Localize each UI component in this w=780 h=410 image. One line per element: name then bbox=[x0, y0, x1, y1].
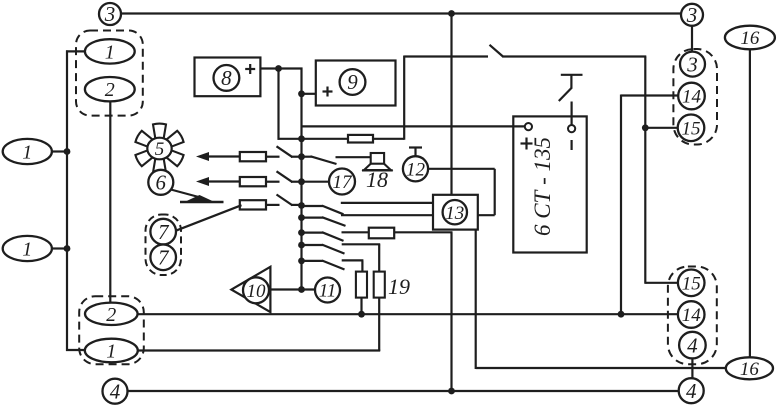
ground wedge bbox=[186, 195, 214, 202]
svg-text:10: 10 bbox=[247, 281, 267, 302]
junction bus row5 bbox=[298, 229, 305, 236]
junction terminal 14 riser bottom bbox=[618, 311, 625, 318]
terminal 3 (top left) bbox=[99, 2, 121, 26]
junction bus row2 bbox=[298, 178, 305, 185]
terminal 14 (right block) bbox=[678, 83, 705, 110]
fuse F1 bbox=[348, 135, 373, 143]
connector block (top left, dashed) bbox=[76, 31, 143, 116]
junction bus row3 bbox=[298, 202, 305, 209]
junction bus row1 bbox=[298, 153, 305, 160]
wire bus to horn switch bbox=[302, 156, 312, 158]
wire stub terminal 1 upper bbox=[52, 150, 67, 152]
arrow to lamp 6 bbox=[196, 177, 209, 186]
junction at unit 8 output bbox=[275, 65, 282, 72]
wire row5 to fuse bbox=[342, 231, 369, 233]
wire drop to bottom rail bbox=[450, 232, 452, 391]
wire bottom rail bbox=[128, 390, 680, 392]
fan motor 5 blades bbox=[153, 124, 166, 139]
wire bus row4 stub bbox=[302, 217, 323, 219]
junction bus row7 bbox=[298, 258, 305, 265]
connector block 7 (dashed) bbox=[146, 215, 182, 276]
terminal 1 (left outer lower) bbox=[3, 236, 52, 261]
terminal 4 (bottom right block) bbox=[679, 332, 706, 359]
wire sensor 12 drop bbox=[494, 169, 496, 215]
wire bus row6 stub bbox=[302, 244, 323, 246]
wire ignition switch left lead bbox=[404, 55, 488, 57]
svg-text:17: 17 bbox=[333, 172, 354, 193]
switch blade row5 right bbox=[322, 232, 344, 241]
wire to terminal 15 top bbox=[645, 127, 678, 129]
wire row7 to resistor 19a bbox=[342, 259, 364, 261]
fuse row3 bbox=[240, 200, 266, 209]
fuse row1 bbox=[240, 152, 266, 161]
wire bus row5 stub bbox=[302, 232, 323, 234]
wire row7 drop to resistor 19a bbox=[361, 260, 363, 271]
wire fuse row3 to switch bbox=[266, 204, 280, 206]
switch blade (ignition) bbox=[490, 45, 504, 57]
wire terminal 14 riser bbox=[620, 95, 622, 315]
wire to main fuse bbox=[278, 138, 349, 140]
wire unit 8 to junction bbox=[260, 67, 302, 69]
unit 9 box bbox=[316, 61, 396, 106]
wire left vertical bus bbox=[66, 50, 68, 351]
wire row3 to relay 13 bbox=[341, 202, 433, 204]
sensor 12 stem bbox=[414, 148, 416, 157]
svg-text:1: 1 bbox=[106, 341, 116, 363]
wire row6 drop to resistor 19b bbox=[378, 244, 380, 271]
terminal 15 (right block) bbox=[678, 115, 705, 142]
wire bus to battery plus bbox=[302, 125, 526, 127]
wire bus row7 stub bbox=[302, 260, 323, 262]
connector block (top right, dashed) bbox=[673, 49, 717, 145]
junction on bottom rail bbox=[448, 388, 455, 395]
wire fuse row1 to switch bbox=[266, 156, 280, 158]
wire right drop to terminal 15 bbox=[644, 57, 646, 284]
wire relay 13 to terminal 16 drop bbox=[475, 230, 477, 369]
svg-text:3: 3 bbox=[104, 2, 116, 26]
junction bus row4 bbox=[298, 214, 305, 221]
wire top rail bbox=[121, 12, 681, 14]
wire to terminal 14 top bbox=[621, 94, 679, 96]
junction right drop to terminal 15 top bbox=[642, 124, 649, 131]
svg-text:14: 14 bbox=[682, 305, 702, 326]
connector block (bottom left, dashed) bbox=[79, 296, 144, 364]
wire fuse F1 to ignition switch riser bbox=[373, 138, 404, 140]
svg-text:3: 3 bbox=[686, 52, 698, 76]
junction left bus upper bbox=[64, 148, 71, 155]
wire unit 10 to terminal 11 bbox=[269, 288, 315, 290]
resistor 19b bbox=[374, 272, 385, 298]
wire terminal 4 link bbox=[691, 358, 693, 379]
wire terminal 16 link bbox=[749, 49, 751, 358]
svg-text:3: 3 bbox=[686, 3, 698, 27]
svg-text:16: 16 bbox=[740, 28, 760, 49]
sensor 12 bbox=[403, 156, 428, 181]
terminal 1 (top left block) bbox=[85, 39, 135, 63]
switch blade row6 right bbox=[322, 245, 345, 254]
wire blade row2 to bus bbox=[291, 181, 302, 183]
svg-text:8: 8 bbox=[221, 66, 232, 90]
switch blade row2 left bbox=[277, 171, 293, 182]
svg-text:11: 11 bbox=[319, 281, 337, 302]
wire row6 to resistor 19b bbox=[342, 243, 381, 245]
terminal 16 (bottom) bbox=[726, 357, 773, 380]
junction bus to unit 9 bbox=[298, 90, 305, 97]
wire fuse row2 to switch bbox=[266, 181, 280, 183]
fuse row2 bbox=[240, 177, 266, 186]
wire bus row3 stub bbox=[302, 205, 323, 207]
svg-text:4: 4 bbox=[687, 333, 698, 357]
terminal 2 (bottom left block) bbox=[85, 303, 138, 326]
switch blade row1 left bbox=[277, 146, 293, 157]
switch blade row4 right bbox=[322, 217, 346, 226]
junction left bus lower bbox=[64, 245, 71, 252]
junction bus row6 bbox=[298, 242, 305, 249]
wire ignition switch to right drop bbox=[503, 55, 646, 57]
switch blade row7 right bbox=[322, 261, 345, 270]
terminal 3 (right block) bbox=[680, 52, 705, 77]
wire fuse row5 to drop bbox=[394, 231, 452, 233]
resistor 19a bbox=[356, 272, 367, 298]
wire terminal 1 to resistor 19b bbox=[138, 349, 380, 351]
svg-text:15: 15 bbox=[682, 118, 701, 139]
terminal 11 bbox=[315, 278, 340, 303]
terminal 15 (bottom right block) bbox=[678, 270, 705, 297]
battery box bbox=[513, 116, 586, 252]
wire terminal 2 to terminal 14 bottom bbox=[138, 313, 679, 315]
junction on top rail bbox=[448, 10, 455, 17]
switch blade row3 left bbox=[277, 195, 293, 206]
wire sensor 12 to relay 13 bbox=[428, 168, 495, 170]
svg-text:9: 9 bbox=[347, 70, 358, 94]
wire lamp 6 to ground bbox=[171, 190, 201, 198]
battery minus terminal bbox=[568, 125, 575, 132]
starter button blade bbox=[559, 88, 572, 101]
svg-text:18: 18 bbox=[366, 167, 388, 192]
plus sign of unit 9 bbox=[323, 90, 333, 92]
svg-text:19: 19 bbox=[388, 274, 410, 299]
starter button stem bbox=[570, 75, 572, 89]
wire blade row1 to bus bbox=[291, 156, 302, 158]
svg-text:1: 1 bbox=[22, 239, 32, 261]
horn 18 symbol bbox=[371, 153, 384, 164]
wire to horn 18 bbox=[336, 156, 372, 158]
terminal 3 (top right) bbox=[681, 3, 703, 27]
unit 10 label circle bbox=[243, 277, 269, 303]
svg-text:1: 1 bbox=[22, 142, 32, 164]
svg-text:7: 7 bbox=[158, 220, 170, 244]
terminal 4 (bottom right) bbox=[679, 378, 704, 403]
svg-text:15: 15 bbox=[682, 273, 701, 294]
battery plus sign bbox=[521, 142, 533, 144]
junction fuse feed bbox=[298, 135, 305, 142]
wire stub to terminal 1 bottom block bbox=[66, 349, 86, 351]
terminal 7 upper bbox=[150, 219, 176, 245]
wire into relay 13 right bbox=[478, 214, 495, 216]
switch blade to horn bbox=[311, 156, 337, 164]
starter button bar bbox=[561, 74, 583, 76]
ground bar bbox=[180, 201, 224, 203]
wire row4 to relay 13 bbox=[341, 214, 433, 216]
svg-text:13: 13 bbox=[445, 203, 464, 224]
svg-text:2: 2 bbox=[106, 304, 116, 326]
svg-text:6 СТ - 135: 6 СТ - 135 bbox=[530, 137, 555, 236]
terminal 7 lower bbox=[150, 244, 176, 270]
svg-text:1: 1 bbox=[105, 41, 115, 63]
battery plus terminal bbox=[525, 123, 532, 130]
relay 13 label circle bbox=[443, 200, 467, 224]
wire terminal 2 to terminal 2 vertical bbox=[109, 101, 111, 303]
wire starter button to battery minus bbox=[570, 102, 572, 125]
relay 13 box bbox=[433, 195, 478, 230]
fan motor 5 hub bbox=[147, 138, 171, 160]
switch blade row3 right bbox=[322, 206, 344, 215]
wire bus to switch 17 bbox=[302, 181, 330, 183]
terminal 16 (top) bbox=[725, 26, 775, 50]
wire riser to ignition switch bbox=[403, 56, 405, 140]
junction resistor 19a on wire 14 bbox=[358, 311, 365, 318]
svg-text:12: 12 bbox=[406, 159, 426, 180]
terminal 1 (left outer upper) bbox=[3, 139, 52, 164]
wire resistor 19a lead bbox=[360, 298, 362, 315]
wire blade row3 to bus bbox=[291, 204, 302, 206]
connector block (bottom right, dashed) bbox=[668, 267, 717, 365]
svg-text:4: 4 bbox=[110, 379, 121, 403]
wire central bus bbox=[300, 68, 302, 290]
terminal 4 (bottom left) bbox=[103, 379, 128, 404]
svg-text:16: 16 bbox=[740, 359, 760, 380]
junction bus bottom bbox=[298, 286, 305, 293]
terminal 1 (bottom left block) bbox=[85, 339, 138, 363]
wire top rail drop to relay 13 bbox=[450, 14, 452, 195]
arrow to fan 5 bbox=[196, 152, 209, 161]
svg-text:4: 4 bbox=[686, 379, 697, 403]
wire terminal 3 to connector block bbox=[691, 26, 693, 53]
svg-text:7: 7 bbox=[158, 246, 170, 270]
wire junction down left branch bbox=[277, 69, 279, 140]
wire terminal 7 to fuse row3 bbox=[176, 205, 242, 231]
wire bus to unit 9 bbox=[302, 93, 316, 95]
svg-text:2: 2 bbox=[105, 79, 115, 101]
svg-text:14: 14 bbox=[682, 87, 702, 108]
svg-text:5: 5 bbox=[155, 139, 165, 160]
wire stub terminal 1 lower bbox=[52, 247, 67, 249]
sensor 12 bar bbox=[409, 146, 422, 148]
wire stub to terminal 1 top block bbox=[66, 50, 85, 52]
wire to terminal 16 bottom bbox=[476, 367, 727, 369]
battery minus sign bbox=[570, 140, 572, 150]
unit 10 triangle bbox=[231, 267, 270, 312]
terminal 14 (bottom right block) bbox=[678, 301, 705, 328]
unit 9 label circle bbox=[340, 69, 366, 95]
wire resistor 19b lead bbox=[378, 298, 380, 351]
terminal 2 (top left block) bbox=[85, 77, 135, 101]
unit 8 label circle bbox=[214, 65, 240, 91]
svg-text:6: 6 bbox=[156, 171, 167, 195]
lamp 6 bbox=[148, 170, 173, 195]
fuse row5 bbox=[369, 228, 394, 239]
wire to terminal 15 bottom bbox=[645, 282, 678, 284]
switch unit 17 bbox=[329, 169, 355, 195]
plus sign of unit 8 bbox=[245, 68, 255, 70]
unit 8 box bbox=[195, 58, 261, 97]
